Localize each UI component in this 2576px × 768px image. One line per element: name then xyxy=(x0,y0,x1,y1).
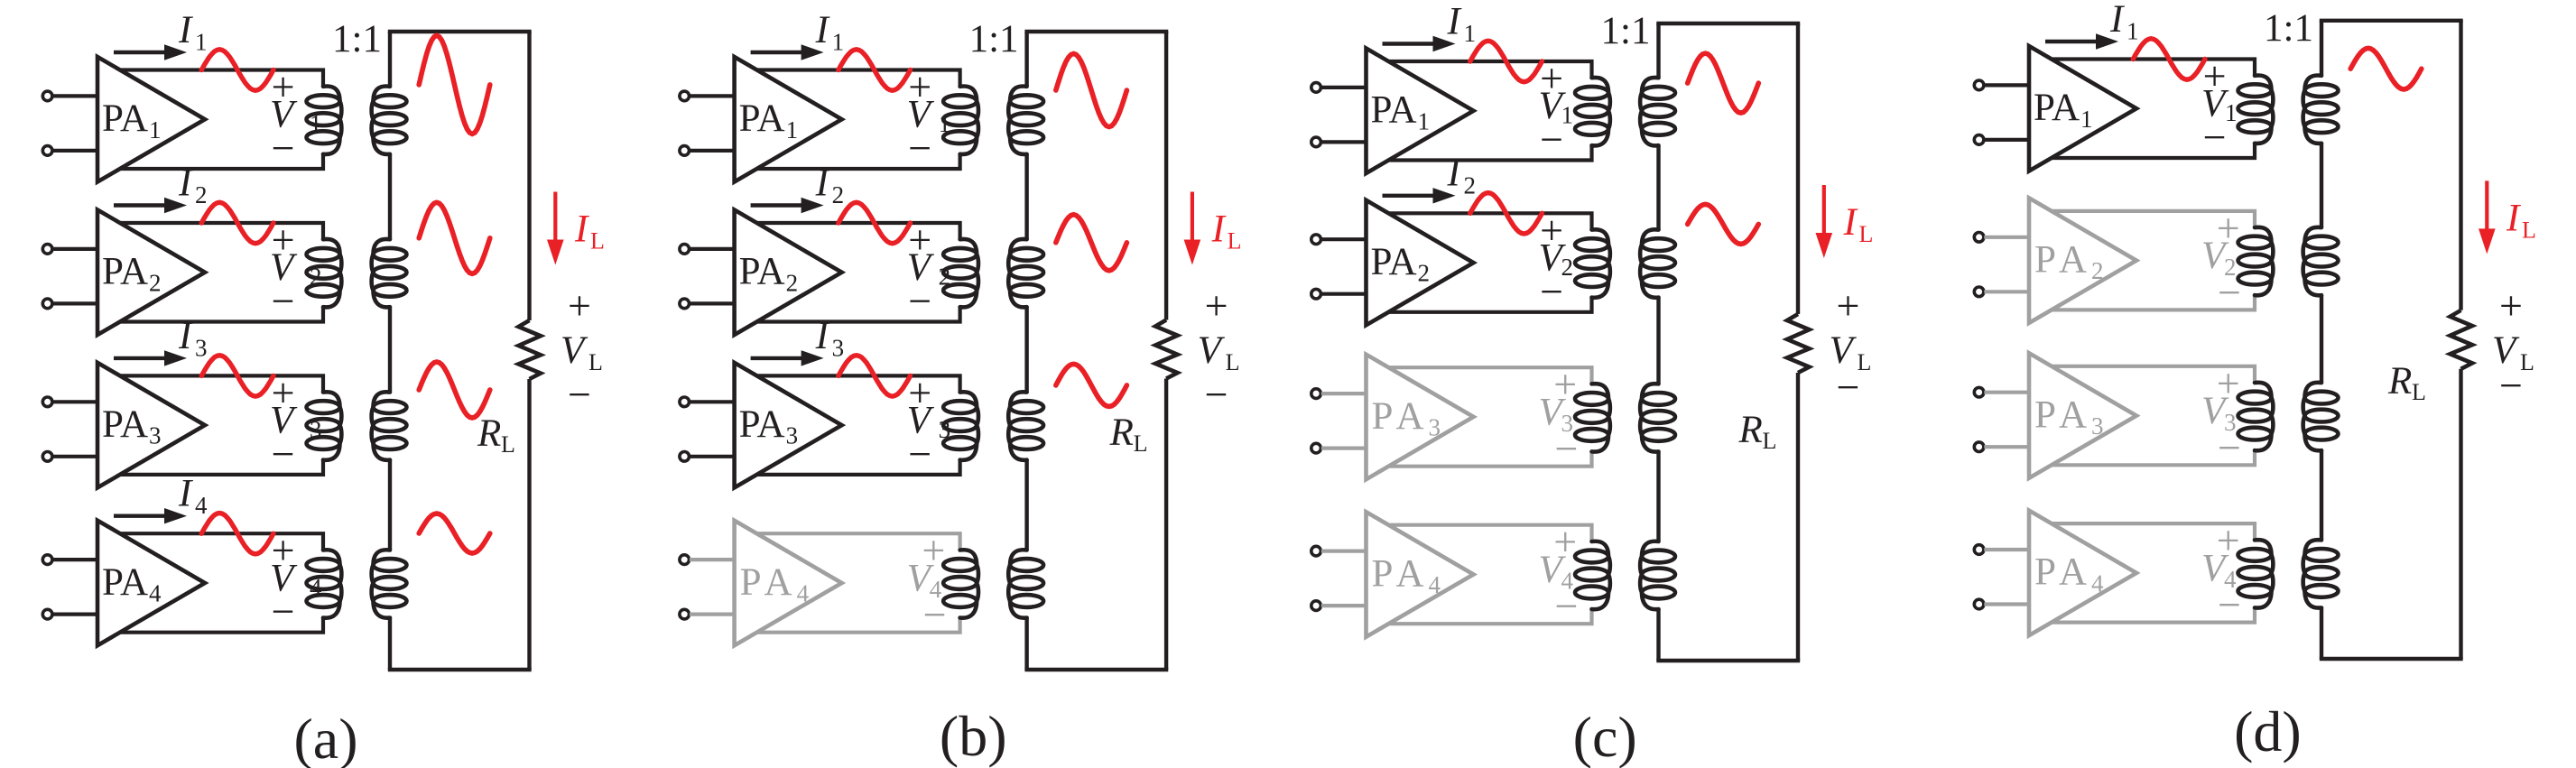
svg-text:1: 1 xyxy=(2225,99,2238,126)
wire secondary vertical segment panel b xyxy=(1024,618,1028,671)
svg-text:−: − xyxy=(2203,115,2227,161)
wire PA3 output bottom xyxy=(757,460,960,475)
wire PA4 output top xyxy=(757,533,960,550)
current arrow I3 panel a xyxy=(114,350,187,365)
svg-text:2: 2 xyxy=(2091,257,2104,284)
wire PA1 output top xyxy=(757,70,960,87)
wire PA4 output bottom xyxy=(757,618,960,633)
op-amp PA1 panel b (triangle) xyxy=(735,57,842,182)
transformer secondary winding 1 panel a xyxy=(372,87,407,154)
transformer primary winding of PA3 panel a xyxy=(307,392,342,459)
svg-text:+: + xyxy=(568,282,591,328)
wire input top PA1 panel a xyxy=(52,94,97,97)
wire loop right lower panel c xyxy=(1796,373,1800,661)
transformer primary winding of PA1 panel d xyxy=(2238,76,2274,143)
wire input bottom PA2 panel a xyxy=(52,301,97,305)
wire secondary vertical segment panel b xyxy=(1024,32,1028,87)
transformer secondary winding 4 panel c xyxy=(1640,541,1675,609)
svg-text:−: − xyxy=(2218,424,2241,470)
wire secondary vertical segment panel c xyxy=(1656,451,1660,541)
svg-text:−: − xyxy=(1837,365,1860,411)
wire input top PA2 panel b xyxy=(690,247,735,251)
current arrow I1 panel b xyxy=(751,44,824,60)
op-amp PA4 panel c (triangle) xyxy=(1367,512,1474,637)
wire PA2 output bottom xyxy=(2052,295,2255,310)
svg-text:PA: PA xyxy=(102,403,148,446)
wire input bottom PA3 panel d xyxy=(1984,445,2029,449)
wire loop right lower panel d xyxy=(2459,369,2462,659)
svg-text:3: 3 xyxy=(2091,412,2104,440)
svg-text:3: 3 xyxy=(939,416,951,443)
input terminal bottom, PA4 panel d xyxy=(1974,599,1984,609)
input terminal top, PA3 panel c xyxy=(1311,389,1321,399)
svg-text:R: R xyxy=(1109,412,1134,454)
current arrow IL (red) panel b xyxy=(1184,192,1201,265)
wire PA1 output bottom xyxy=(757,154,960,169)
svg-text:2: 2 xyxy=(1418,260,1431,287)
input terminal top, PA2 panel d xyxy=(1974,233,1984,243)
wire PA1 output top xyxy=(120,70,323,87)
wire PA3 output top xyxy=(1389,367,1592,384)
wire input bottom PA1 panel a xyxy=(52,149,97,153)
transformer secondary winding 2 panel d xyxy=(2303,227,2339,295)
wire secondary vertical segment panel a xyxy=(388,32,392,87)
input terminal bottom, PA4 panel b xyxy=(680,609,690,619)
svg-text:(b): (b) xyxy=(940,704,1007,768)
svg-text:−: − xyxy=(1205,372,1228,418)
wire input bottom PA4 panel b xyxy=(690,612,735,615)
wire loop right lower panel a xyxy=(527,379,531,670)
svg-text:L: L xyxy=(1859,221,1874,247)
wire input top PA3 panel d xyxy=(1984,391,2029,394)
svg-text:R: R xyxy=(2387,360,2412,403)
wire input bottom PA3 panel b xyxy=(690,455,735,458)
svg-text:I: I xyxy=(815,315,830,357)
wire loop top panel d xyxy=(2320,19,2463,23)
transformer secondary winding 2 panel c xyxy=(1640,229,1675,297)
svg-text:4: 4 xyxy=(195,492,208,519)
svg-text:+: + xyxy=(2499,282,2523,328)
wire PA4 output bottom xyxy=(1389,609,1592,624)
input terminal bottom, PA2 panel c xyxy=(1311,289,1321,299)
svg-text:4: 4 xyxy=(1429,571,1441,598)
op-amp PA2 panel d (triangle) xyxy=(2029,198,2136,323)
svg-text:3: 3 xyxy=(1429,414,1441,441)
wire loop top panel b xyxy=(1024,30,1168,33)
wire loop bottom panel d xyxy=(2320,657,2463,661)
input terminal bottom, PA1 panel b xyxy=(680,146,690,156)
sine waveform (red) on PA2 output xyxy=(201,202,273,243)
wire PA4 output top xyxy=(120,533,323,550)
svg-text:PA: PA xyxy=(1372,395,1431,438)
input terminal top, PA4 panel d xyxy=(1974,545,1984,555)
svg-text:4: 4 xyxy=(310,574,322,601)
wire secondary vertical segment panel c xyxy=(1656,23,1660,78)
input terminal top, PA1 panel d xyxy=(1974,80,1984,90)
svg-text:4: 4 xyxy=(2091,569,2104,597)
svg-text:4: 4 xyxy=(149,580,162,607)
svg-text:(a): (a) xyxy=(293,707,357,768)
svg-text:PA: PA xyxy=(1371,89,1417,132)
svg-text:1:1: 1:1 xyxy=(2264,7,2313,50)
svg-text:PA: PA xyxy=(102,561,148,604)
svg-text:R: R xyxy=(1738,409,1763,451)
transformer secondary winding 3 panel a xyxy=(372,392,407,459)
sine waveform (red) on PA2 output xyxy=(839,202,911,243)
sine waveform (red) on PA1 output xyxy=(201,50,273,90)
wire loop bottom panel b xyxy=(1024,668,1168,671)
input terminal bottom, PA3 panel a xyxy=(42,452,52,462)
transformer primary winding of PA3 panel c xyxy=(1575,384,1610,451)
op-amp PA3 panel c (triangle) xyxy=(1367,355,1474,480)
op-amp PA1 panel c (triangle) xyxy=(1367,49,1474,174)
input terminal top, PA3 panel a xyxy=(42,397,52,407)
wire secondary vertical segment panel a xyxy=(388,460,392,551)
svg-text:−: − xyxy=(1540,268,1563,314)
wire PA3 output bottom xyxy=(2052,450,2255,465)
svg-text:I: I xyxy=(1211,208,1227,251)
svg-text:2: 2 xyxy=(310,264,322,291)
svg-text:PA: PA xyxy=(2034,87,2080,129)
svg-text:2: 2 xyxy=(832,181,845,208)
svg-text:3: 3 xyxy=(832,334,845,361)
svg-text:−: − xyxy=(272,430,295,477)
svg-text:PA: PA xyxy=(102,251,148,293)
sine waveform (red) secondary node 1 panel c xyxy=(1688,53,1759,113)
wire loop top panel a xyxy=(388,30,532,33)
wire PA3 output bottom xyxy=(1389,451,1592,466)
input terminal top, PA1 panel b xyxy=(680,91,690,101)
svg-text:−: − xyxy=(2218,269,2241,315)
wire secondary vertical segment panel d xyxy=(2320,143,2323,227)
sine waveform (red) secondary node 1 panel b xyxy=(1056,54,1127,127)
current arrow IL (red) panel c xyxy=(1816,185,1833,258)
wire input top PA3 panel a xyxy=(52,400,97,403)
svg-text:I: I xyxy=(815,162,830,204)
svg-text:1: 1 xyxy=(149,116,162,143)
input terminal bottom, PA3 panel c xyxy=(1311,443,1321,453)
wire PA4 output bottom xyxy=(2052,607,2255,622)
wire PA2 output top xyxy=(757,223,960,239)
svg-text:−: − xyxy=(908,430,931,477)
svg-text:PA: PA xyxy=(2034,239,2093,282)
svg-text:PA: PA xyxy=(739,251,785,293)
sine waveform (red) secondary node 4 panel a xyxy=(419,514,490,553)
svg-text:PA: PA xyxy=(102,97,148,140)
transformer primary winding of PA2 panel a xyxy=(307,239,342,307)
resistor RL panel b xyxy=(1155,320,1178,379)
resistor RL panel d xyxy=(2451,310,2473,369)
sine waveform (red) on PA3 output xyxy=(201,356,273,396)
wire input bottom PA2 panel b xyxy=(690,301,735,305)
svg-text:−: − xyxy=(272,588,295,634)
transformer primary winding of PA4 panel d xyxy=(2238,540,2274,607)
transformer primary winding of PA3 panel d xyxy=(2238,383,2274,450)
svg-text:L: L xyxy=(2522,217,2536,243)
transformer secondary winding 3 panel c xyxy=(1640,384,1675,451)
input terminal top, PA4 panel c xyxy=(1311,546,1321,556)
transformer secondary winding 2 panel a xyxy=(372,239,407,307)
svg-text:(d): (d) xyxy=(2234,699,2302,763)
op-amp PA1 panel d (triangle) xyxy=(2029,46,2136,171)
wire secondary vertical segment panel b xyxy=(1024,460,1028,551)
svg-text:I: I xyxy=(178,9,193,51)
svg-text:L: L xyxy=(1228,228,1242,254)
input terminal bottom, PA1 panel d xyxy=(1974,135,1984,145)
op-amp PA4 panel d (triangle) xyxy=(2029,511,2136,636)
wire input bottom PA3 panel a xyxy=(52,455,97,458)
sine waveform (red) on PA1 output xyxy=(2133,39,2205,79)
input terminal bottom, PA2 panel d xyxy=(1974,287,1984,297)
sine waveform (red) secondary node 3 panel b xyxy=(1056,364,1127,406)
wire PA1 output bottom xyxy=(120,154,323,169)
input terminal top, PA2 panel b xyxy=(680,245,690,254)
svg-text:−: − xyxy=(1540,116,1563,162)
current arrow I2 panel b xyxy=(751,198,824,213)
svg-text:I: I xyxy=(178,162,193,204)
svg-text:−: − xyxy=(908,278,931,324)
wire input top PA4 panel a xyxy=(52,558,97,561)
svg-text:−: − xyxy=(1555,583,1579,629)
wire secondary vertical segment panel d xyxy=(2320,21,2323,76)
svg-text:L: L xyxy=(1134,430,1148,457)
sine waveform (red) on PA4 output xyxy=(201,514,273,554)
wire input bottom PA4 panel d xyxy=(1984,602,2029,606)
sine waveform (red) secondary node 3 panel a xyxy=(419,362,490,418)
svg-text:2: 2 xyxy=(195,181,208,208)
transformer primary winding of PA4 panel a xyxy=(307,550,342,617)
svg-text:2: 2 xyxy=(939,264,951,291)
svg-text:1:1: 1:1 xyxy=(332,18,382,60)
transformer primary winding of PA3 panel b xyxy=(943,392,978,459)
input terminal bottom, PA4 panel a xyxy=(42,609,52,619)
svg-text:2: 2 xyxy=(1464,171,1477,199)
svg-text:L: L xyxy=(501,431,515,458)
wire secondary vertical segment panel a xyxy=(388,154,392,239)
svg-text:3: 3 xyxy=(195,334,208,361)
svg-text:I: I xyxy=(1447,153,1462,195)
wire loop bottom panel c xyxy=(1656,659,1800,662)
input terminal top, PA3 panel b xyxy=(680,397,690,407)
svg-text:3: 3 xyxy=(149,422,162,449)
wire PA4 output top xyxy=(2052,523,2255,540)
svg-text:PA: PA xyxy=(739,97,785,140)
svg-text:R: R xyxy=(477,412,501,455)
op-amp PA3 panel a (triangle) xyxy=(97,363,205,488)
svg-text:−: − xyxy=(2218,582,2241,628)
wire secondary vertical segment panel c xyxy=(1656,298,1660,384)
svg-text:1: 1 xyxy=(832,29,845,56)
transformer primary winding of PA4 panel b xyxy=(943,550,978,617)
svg-text:−: − xyxy=(568,372,591,418)
transformer secondary winding 3 panel d xyxy=(2303,383,2339,450)
svg-text:1: 1 xyxy=(2127,18,2139,45)
op-amp PA3 panel d (triangle) xyxy=(2029,353,2136,478)
wire PA2 output top xyxy=(120,223,323,239)
current arrow I3 panel b xyxy=(751,350,824,365)
wire loop right upper panel a xyxy=(527,32,531,320)
wire input top PA1 panel d xyxy=(1984,83,2029,87)
wire input top PA2 panel a xyxy=(52,247,97,251)
svg-text:1: 1 xyxy=(1464,20,1477,47)
svg-text:I: I xyxy=(1447,0,1462,42)
svg-text:(c): (c) xyxy=(1573,705,1637,768)
wire input top PA2 panel c xyxy=(1321,237,1367,241)
wire secondary vertical segment panel d xyxy=(2320,295,2323,383)
wire secondary vertical segment panel c xyxy=(1656,145,1660,229)
op-amp PA4 panel a (triangle) xyxy=(97,521,205,646)
transformer secondary winding 4 panel d xyxy=(2303,540,2339,607)
wire PA1 output bottom xyxy=(1389,145,1592,160)
op-amp PA2 panel c (triangle) xyxy=(1367,200,1474,325)
sine waveform (red) secondary node 1 panel d xyxy=(2350,48,2422,89)
svg-text:I: I xyxy=(178,315,193,357)
sine waveform (red) on PA1 output xyxy=(1470,41,1543,81)
wire input bottom PA4 panel a xyxy=(52,612,97,615)
wire input top PA1 panel c xyxy=(1321,86,1367,89)
input terminal bottom, PA1 panel c xyxy=(1311,137,1321,147)
op-amp PA2 panel b (triangle) xyxy=(735,210,842,336)
svg-text:L: L xyxy=(2412,379,2426,405)
transformer secondary winding 2 panel b xyxy=(1008,239,1043,307)
wire input top PA2 panel d xyxy=(1984,236,2029,239)
sine waveform (red) on PA1 output xyxy=(839,50,911,90)
svg-text:PA: PA xyxy=(1371,241,1417,283)
wire loop right lower panel b xyxy=(1164,379,1168,671)
svg-text:1: 1 xyxy=(786,116,799,143)
wire PA2 output bottom xyxy=(757,307,960,321)
wire secondary vertical segment panel d xyxy=(2320,450,2323,540)
transformer secondary winding 4 panel b xyxy=(1008,550,1043,617)
wire loop top panel c xyxy=(1656,22,1800,25)
svg-text:−: − xyxy=(908,125,931,171)
wire PA3 output top xyxy=(120,375,323,392)
svg-text:+: + xyxy=(1205,282,1228,328)
svg-text:4: 4 xyxy=(797,580,810,607)
wire input top PA4 panel d xyxy=(1984,548,2029,551)
sine waveform (red) secondary node 2 panel c xyxy=(1688,204,1759,244)
wire input top PA4 panel b xyxy=(690,558,735,561)
sine waveform (red) secondary node 2 panel a xyxy=(419,202,490,273)
svg-text:1: 1 xyxy=(195,29,208,56)
input terminal top, PA3 panel d xyxy=(1974,387,1984,397)
wire PA4 output bottom xyxy=(120,618,323,633)
svg-text:+: + xyxy=(1837,282,1860,328)
wire input bottom PA4 panel c xyxy=(1321,604,1367,607)
current arrow I2 panel c xyxy=(1383,188,1456,203)
svg-text:PA: PA xyxy=(1372,552,1431,595)
wire loop right upper panel c xyxy=(1796,23,1800,314)
transformer primary winding of PA2 panel c xyxy=(1575,229,1610,297)
op-amp PA3 panel b (triangle) xyxy=(735,363,842,488)
wire input top PA3 panel c xyxy=(1321,392,1367,395)
svg-text:I: I xyxy=(815,9,830,51)
svg-text:PA: PA xyxy=(740,561,799,604)
transformer primary winding of PA4 panel c xyxy=(1575,541,1610,609)
svg-text:−: − xyxy=(2499,363,2523,409)
input terminal top, PA4 panel b xyxy=(680,555,690,565)
wire PA2 output top xyxy=(2052,211,2255,227)
wire input top PA1 panel b xyxy=(690,94,735,97)
transformer primary winding of PA1 panel b xyxy=(943,87,978,154)
wire input bottom PA3 panel c xyxy=(1321,447,1367,450)
svg-text:PA: PA xyxy=(739,403,785,446)
wire secondary vertical segment panel a xyxy=(388,618,392,671)
wire PA2 output top xyxy=(1389,213,1592,229)
wire PA1 output top xyxy=(1389,61,1592,78)
svg-text:1:1: 1:1 xyxy=(969,18,1019,60)
svg-text:I: I xyxy=(2506,197,2521,239)
input terminal bottom, PA2 panel b xyxy=(680,299,690,309)
resistor RL panel a xyxy=(519,320,542,379)
svg-text:L: L xyxy=(1763,428,1777,454)
transformer secondary winding 4 panel a xyxy=(372,550,407,617)
wire PA4 output top xyxy=(1389,525,1592,541)
wire loop bottom panel a xyxy=(388,668,532,671)
input terminal top, PA2 panel c xyxy=(1311,235,1321,245)
wire PA1 output bottom xyxy=(2052,143,2255,158)
op-amp PA1 panel a (triangle) xyxy=(97,57,205,182)
op-amp PA2 panel a (triangle) xyxy=(97,210,205,336)
wire loop right upper panel d xyxy=(2459,21,2462,310)
input terminal top, PA4 panel a xyxy=(42,555,52,565)
svg-text:1: 1 xyxy=(939,110,951,137)
transformer primary winding of PA2 panel d xyxy=(2238,227,2274,295)
current arrow IL (red) panel a xyxy=(547,192,564,265)
wire secondary vertical segment panel d xyxy=(2320,607,2323,659)
input terminal top, PA1 panel c xyxy=(1311,83,1321,93)
wire PA2 output bottom xyxy=(120,307,323,321)
wire secondary vertical segment panel b xyxy=(1024,307,1028,392)
sine waveform (red) secondary node 1 panel a xyxy=(419,35,490,134)
transformer secondary winding 1 panel b xyxy=(1008,87,1043,154)
input terminal top, PA2 panel a xyxy=(42,245,52,254)
input terminal bottom, PA1 panel a xyxy=(42,146,52,156)
op-amp PA4 panel b (triangle) xyxy=(735,521,842,646)
svg-text:L: L xyxy=(590,228,605,254)
transformer primary winding of PA1 panel a xyxy=(307,87,342,154)
svg-text:1:1: 1:1 xyxy=(1601,10,1651,52)
svg-text:PA: PA xyxy=(2034,393,2093,436)
wire input bottom PA2 panel c xyxy=(1321,292,1367,296)
svg-text:I: I xyxy=(2109,0,2125,41)
wire PA3 output bottom xyxy=(120,460,323,475)
current arrow I4 panel a xyxy=(114,508,187,523)
svg-text:−: − xyxy=(923,592,947,638)
svg-text:1: 1 xyxy=(1418,107,1431,134)
sine waveform (red) on PA3 output xyxy=(839,356,911,396)
transformer primary winding of PA2 panel b xyxy=(943,239,978,307)
current arrow I1 panel d xyxy=(2045,33,2118,49)
transformer secondary winding 3 panel b xyxy=(1008,392,1043,459)
wire loop right upper panel b xyxy=(1164,32,1168,320)
svg-text:−: − xyxy=(272,278,295,324)
wire input bottom PA1 panel b xyxy=(690,149,735,153)
wire input bottom PA1 panel d xyxy=(1984,138,2029,142)
svg-text:3: 3 xyxy=(310,416,322,443)
input terminal bottom, PA3 panel b xyxy=(680,452,690,462)
wire input bottom PA1 panel c xyxy=(1321,140,1367,143)
wire secondary vertical segment panel b xyxy=(1024,154,1028,239)
input terminal bottom, PA2 panel a xyxy=(42,299,52,309)
current arrow IL (red) panel d xyxy=(2479,180,2496,254)
svg-text:PA: PA xyxy=(2034,551,2093,594)
svg-text:I: I xyxy=(1843,201,1858,244)
current arrow I1 panel c xyxy=(1383,36,1456,51)
input terminal bottom, PA4 panel c xyxy=(1311,601,1321,611)
transformer secondary winding 1 panel c xyxy=(1640,78,1675,145)
svg-text:3: 3 xyxy=(786,422,799,449)
